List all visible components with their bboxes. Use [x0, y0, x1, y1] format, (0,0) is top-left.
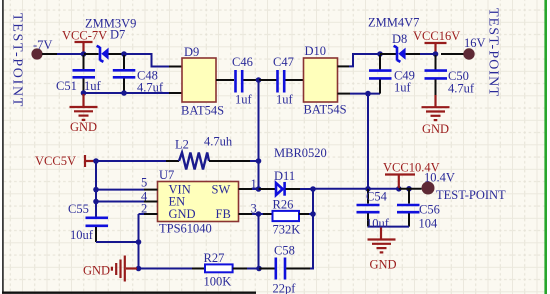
svg-text:3: 3: [251, 201, 257, 215]
svg-text:1uf: 1uf: [84, 79, 102, 93]
svg-text:4.7uf: 4.7uf: [137, 81, 164, 95]
svg-text:1: 1: [251, 177, 257, 191]
svg-text:732K: 732K: [273, 223, 301, 237]
svg-text:16V: 16V: [464, 36, 486, 50]
svg-text:C47: C47: [273, 55, 294, 69]
svg-text:C58: C58: [274, 244, 295, 258]
svg-text:MBR0520: MBR0520: [274, 146, 327, 160]
svg-text:D11: D11: [274, 169, 295, 183]
svg-text:100K: 100K: [204, 275, 232, 289]
svg-text:C46: C46: [232, 55, 253, 69]
svg-text:VCC5V: VCC5V: [35, 154, 76, 168]
svg-text:C54: C54: [366, 190, 388, 204]
svg-text:10uf: 10uf: [366, 217, 390, 231]
svg-text:4.7uh: 4.7uh: [204, 135, 233, 149]
svg-text:C51: C51: [56, 79, 77, 93]
svg-text:BAT54S: BAT54S: [304, 103, 347, 117]
svg-text:D8: D8: [392, 32, 407, 46]
svg-text:10uf: 10uf: [70, 228, 94, 242]
svg-text:C56: C56: [419, 203, 440, 217]
svg-text:1uf: 1uf: [276, 93, 294, 107]
svg-text:L2: L2: [175, 138, 189, 152]
svg-text:ZMM4V7: ZMM4V7: [368, 16, 419, 30]
svg-text:R27: R27: [204, 251, 225, 265]
svg-text:1uf: 1uf: [235, 93, 253, 107]
svg-text:VCC-7V: VCC-7V: [62, 29, 107, 43]
svg-text:C55: C55: [68, 202, 89, 216]
svg-text:-7V: -7V: [33, 38, 52, 52]
svg-text:22pf: 22pf: [273, 282, 297, 294]
svg-text:D7: D7: [110, 28, 125, 42]
svg-text:GND: GND: [370, 258, 397, 272]
svg-text:4.7uf: 4.7uf: [448, 82, 475, 96]
svg-text:TEST-POINT: TEST-POINT: [486, 8, 501, 97]
svg-text:GND: GND: [83, 264, 110, 278]
svg-text:TEST-POINT: TEST-POINT: [436, 188, 506, 202]
svg-text:D9: D9: [184, 45, 199, 59]
svg-text:5: 5: [141, 175, 147, 189]
svg-text:GND: GND: [422, 122, 449, 136]
svg-text:R26: R26: [273, 198, 294, 212]
svg-text:TPS61040: TPS61040: [159, 222, 212, 236]
svg-text:2: 2: [141, 202, 147, 216]
svg-text:GND: GND: [169, 207, 196, 221]
svg-text:SW: SW: [212, 183, 231, 197]
svg-text:104: 104: [419, 217, 439, 231]
svg-text:1uf: 1uf: [394, 81, 412, 95]
svg-text:FB: FB: [216, 207, 231, 221]
svg-text:VCC16V: VCC16V: [413, 29, 460, 43]
svg-text:D10: D10: [305, 44, 327, 58]
svg-text:U7: U7: [159, 168, 174, 182]
svg-text:BAT54S: BAT54S: [181, 104, 224, 118]
svg-text:10.4V: 10.4V: [424, 171, 455, 185]
svg-text:GND: GND: [70, 120, 97, 134]
svg-text:TEST-POINT: TEST-POINT: [10, 13, 25, 108]
